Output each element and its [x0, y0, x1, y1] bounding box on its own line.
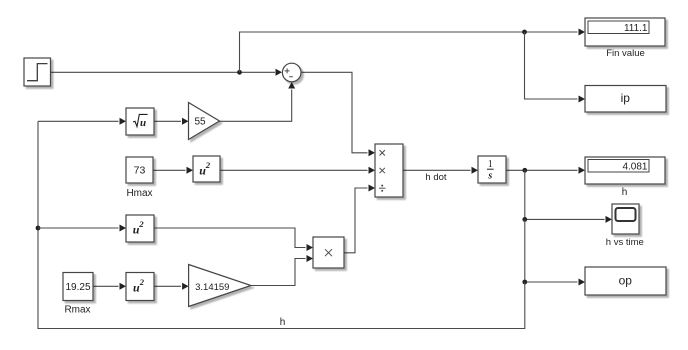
arrowhead into product input1 — [369, 149, 376, 156]
arrowhead into display h — [579, 167, 586, 174]
sqrt block — [126, 108, 154, 135]
svg-text:4.081: 4.081 — [622, 161, 647, 172]
arrowhead into u^2 — [187, 167, 194, 174]
sum block — [282, 63, 301, 82]
wire u^2 to product input2 — [220, 169, 368, 171]
scope block — [612, 204, 639, 234]
gain 3.14159 — [189, 265, 251, 307]
outport op — [585, 267, 666, 295]
wire down to ip — [525, 32, 578, 99]
wire junction up to Fin value display — [240, 32, 578, 72]
feedback wire h bottom loop — [38, 121, 525, 328]
arrowhead into scope — [606, 216, 613, 223]
svg-text:1: 1 — [488, 159, 493, 170]
math function u^2 row4 — [126, 273, 154, 301]
wire step to sum — [51, 71, 276, 73]
wire constant 73 to u^2 — [153, 169, 186, 171]
arrowhead up into sum — [288, 82, 295, 89]
svg-text:Hmax: Hmax — [126, 188, 152, 199]
arrowhead into sqrt — [120, 118, 127, 125]
arrowhead into op — [579, 279, 586, 286]
wire u^2 row3 to product2 — [154, 228, 306, 248]
svg-text:h dot: h dot — [425, 172, 446, 183]
svg-text:55: 55 — [194, 117, 206, 128]
arrowhead into sum — [276, 69, 283, 76]
svg-text:op: op — [619, 274, 633, 288]
wire feedback into sqrt — [38, 120, 119, 122]
junction dot on top wire — [522, 30, 527, 35]
constant Hmax 73 — [126, 157, 153, 183]
svg-text:73: 73 — [134, 164, 146, 176]
constant Rmax 19.25 — [63, 273, 93, 301]
wire constant 19.25 to u^2 row4 — [93, 285, 119, 287]
product2 block — [313, 237, 344, 268]
junction dot on left vertical — [36, 226, 41, 231]
arrowhead into integrator — [472, 167, 479, 174]
math function u^2 row2 — [193, 156, 220, 182]
junction dot at op branch — [522, 280, 527, 285]
arrowhead into product2 input2 — [307, 255, 314, 262]
wire sqrt to gain55 — [154, 120, 181, 122]
svg-text:111.1: 111.1 — [624, 23, 648, 34]
wire down to op — [525, 219, 578, 282]
outport ip — [585, 86, 666, 113]
math function u^2 row3 — [126, 215, 154, 242]
arrowhead into gain55 — [182, 118, 189, 125]
svg-text:h: h — [622, 187, 628, 198]
arrowhead into product divide input — [369, 185, 376, 192]
svg-text:u: u — [140, 117, 146, 129]
arrowhead into u^2 row4 — [120, 283, 127, 290]
wire gain55 to sum bottom — [220, 90, 292, 122]
display h — [585, 157, 665, 184]
arrowhead into Fin value — [579, 29, 586, 36]
svg-text:Fin value: Fin value — [606, 48, 645, 59]
svg-text:ip: ip — [621, 91, 631, 105]
svg-text:s: s — [487, 170, 492, 181]
junction dot on step wire — [237, 70, 242, 75]
arrowhead into u^2 row3 — [120, 225, 127, 232]
arrowhead into gain pi — [182, 283, 189, 290]
svg-text:h: h — [280, 317, 286, 328]
wire left vertical to u^2 row3 — [38, 227, 119, 229]
svg-text:3.14159: 3.14159 — [195, 282, 229, 293]
svg-text:19.25: 19.25 — [65, 282, 90, 293]
junction dot at scope branch — [522, 217, 527, 222]
wire sum to product input1 — [301, 72, 368, 153]
arrowhead into ip — [579, 96, 586, 103]
product block 3 inputs — [375, 144, 403, 197]
svg-text:Rmax: Rmax — [64, 305, 90, 316]
wire gain pi to product2 — [251, 259, 306, 286]
svg-text:2: 2 — [138, 219, 144, 229]
arrowhead into product input2 — [369, 167, 376, 174]
wire product to integrator — [403, 169, 471, 171]
svg-text:2: 2 — [205, 160, 211, 170]
step block — [24, 58, 51, 86]
junction dot on h wire — [522, 168, 527, 173]
svg-text:2: 2 — [139, 277, 145, 287]
arrowhead into product2 input1 — [307, 244, 314, 251]
display Fin value — [585, 18, 665, 46]
gain 55 — [189, 103, 220, 140]
wire integrator to display h — [506, 169, 578, 171]
integrator 1/s — [478, 156, 506, 183]
svg-text:h vs time: h vs time — [606, 237, 644, 248]
wire down to scope — [525, 170, 605, 219]
wire product2 to product divide input — [344, 188, 368, 253]
wire u^2 row4 to gain pi — [154, 285, 181, 287]
